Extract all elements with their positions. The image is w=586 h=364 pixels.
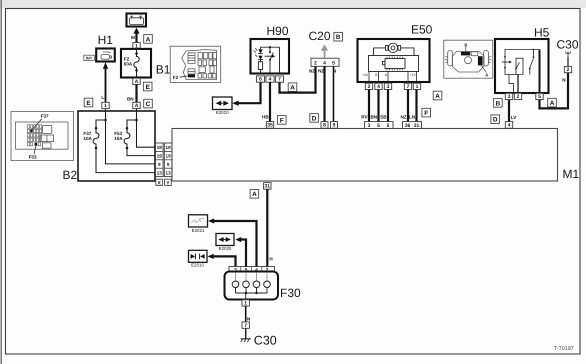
svg-text:F30: F30 bbox=[280, 286, 301, 300]
node junction pinA bbox=[135, 119, 138, 122]
pin 6 bbox=[256, 76, 264, 83]
pin 7 bbox=[275, 76, 283, 83]
svg-text:19: 19 bbox=[157, 154, 163, 159]
connector Y pins 18 19 9 13 bbox=[164, 143, 172, 177]
fuse F53 10A bbox=[114, 127, 130, 149]
svg-text:LN: LN bbox=[409, 114, 416, 119]
node D (pin4) bbox=[491, 115, 500, 124]
wire RV E50 pin2 to M1 bbox=[361, 90, 369, 122]
svg-text:-: - bbox=[406, 73, 407, 77]
svg-text:F53: F53 bbox=[29, 155, 37, 160]
pin 2 (E50) bbox=[365, 83, 372, 90]
svg-text:4: 4 bbox=[323, 60, 326, 66]
svg-text:M: M bbox=[131, 35, 135, 40]
wire M battery to B1 pin 1 bbox=[131, 28, 139, 43]
svg-text:19: 19 bbox=[166, 154, 172, 159]
splice E2020 bbox=[213, 97, 233, 115]
svg-text:A: A bbox=[290, 85, 295, 92]
pin 3 (E50) bbox=[384, 83, 391, 90]
svg-text:7: 7 bbox=[278, 77, 281, 83]
relay H90 bbox=[251, 39, 290, 74]
svg-text:H90: H90 bbox=[267, 24, 289, 38]
svg-text:H5: H5 bbox=[534, 25, 550, 39]
wire SB E50 pin3 to M1 bbox=[380, 90, 388, 122]
E50 internals bbox=[369, 43, 419, 82]
wire N C30 to H5 pin5 bbox=[540, 73, 569, 109]
svg-text:4: 4 bbox=[377, 84, 380, 90]
pin 3 (H5) bbox=[505, 93, 512, 100]
svg-text:C30: C30 bbox=[254, 333, 277, 347]
wire HB H90 pin4 to M1 pin35 bbox=[262, 82, 270, 121]
pin 1 (E50) bbox=[413, 83, 420, 90]
svg-text:E2010: E2010 bbox=[191, 262, 204, 267]
node E (B2 pin 1) bbox=[84, 98, 93, 107]
node A (E50) bbox=[433, 91, 442, 100]
node F (E50 wires) bbox=[422, 108, 431, 117]
svg-text:E2020: E2020 bbox=[219, 246, 232, 251]
fuse F37 10A bbox=[83, 127, 99, 149]
splice E2020 lower bbox=[216, 234, 234, 251]
ground symbol C30 top bbox=[565, 51, 571, 57]
svg-text:4: 4 bbox=[508, 123, 511, 129]
svg-text:5: 5 bbox=[332, 60, 335, 66]
node junction pin1 bbox=[104, 119, 107, 122]
INT box bbox=[84, 55, 95, 60]
svg-text:13: 13 bbox=[157, 170, 163, 175]
svg-text:SB: SB bbox=[380, 114, 387, 119]
svg-text:7: 7 bbox=[407, 84, 410, 90]
wire C20 pin4 to M1 pin8 bbox=[323, 66, 325, 121]
B2 location inset bbox=[11, 112, 74, 161]
svg-text:F2: F2 bbox=[173, 75, 179, 80]
pins 3 5 4 2 (F30) bbox=[229, 267, 275, 274]
wire BN E50 pin4 to M1 bbox=[370, 90, 378, 122]
wire L B2 to H1 bbox=[101, 62, 108, 102]
svg-text:A: A bbox=[252, 191, 257, 198]
fusebox B1 bbox=[121, 49, 151, 78]
pin A (B2 top) bbox=[133, 102, 140, 109]
svg-text:18: 18 bbox=[166, 145, 172, 150]
svg-text:31: 31 bbox=[265, 184, 271, 190]
node X bbox=[156, 179, 163, 186]
pin A (B1 bottom) bbox=[133, 78, 140, 85]
svg-text:7: 7 bbox=[244, 323, 247, 329]
fuse F2 bbox=[134, 49, 139, 78]
node B (C20) bbox=[334, 32, 343, 41]
svg-text:5: 5 bbox=[387, 123, 390, 129]
svg-text:4: 4 bbox=[269, 77, 272, 83]
svg-text:2: 2 bbox=[314, 60, 317, 66]
pin 7 (E50) bbox=[404, 83, 411, 90]
svg-text:C30: C30 bbox=[557, 38, 579, 52]
svg-text:B2: B2 bbox=[63, 168, 78, 182]
svg-text:9: 9 bbox=[158, 162, 161, 167]
node A (battery wire) bbox=[144, 35, 153, 44]
svg-text:35: 35 bbox=[267, 123, 273, 129]
ground C30 bbox=[241, 328, 251, 342]
wire pinA to row 18 bbox=[137, 109, 156, 148]
wire LN E50 pin1 to M1 bbox=[409, 90, 417, 122]
svg-text:A: A bbox=[135, 79, 139, 85]
svg-text:LV: LV bbox=[511, 115, 517, 120]
svg-text:NZ: NZ bbox=[400, 114, 406, 119]
control unit M1 bbox=[172, 129, 558, 182]
node B (H5) bbox=[494, 99, 503, 108]
pin 1 (F30 bottom) bbox=[242, 300, 249, 307]
node F (pin35) bbox=[277, 116, 286, 125]
svg-text:F37: F37 bbox=[41, 114, 49, 119]
wire N F30 to ground bbox=[246, 306, 251, 322]
svg-text:A: A bbox=[146, 36, 151, 43]
wire branch to F53 bbox=[127, 120, 137, 128]
node E (B1 bottom) bbox=[143, 82, 152, 91]
svg-text:A: A bbox=[485, 73, 488, 78]
wire BN B1 to B2 bbox=[127, 85, 137, 103]
E50 internal pin labels bbox=[362, 73, 415, 77]
connector C20 pins 2 4 5 bbox=[311, 58, 339, 66]
H5 location inset bbox=[444, 40, 493, 78]
pin 1 (B1 top) bbox=[133, 43, 140, 50]
H5 internals bbox=[502, 49, 540, 93]
svg-text:E2020: E2020 bbox=[216, 110, 229, 115]
wire LV H5 pin3 to M1 pin4 bbox=[509, 100, 517, 122]
svg-text:HB: HB bbox=[262, 114, 269, 119]
svg-text:9: 9 bbox=[333, 123, 336, 129]
svg-text:E: E bbox=[146, 84, 151, 91]
svg-text:+15: +15 bbox=[410, 73, 416, 77]
pin 4 (E50) bbox=[375, 83, 382, 90]
fusebox B2 bbox=[78, 111, 155, 181]
svg-text:INT: INT bbox=[86, 55, 93, 60]
svg-text:E: E bbox=[86, 100, 91, 107]
svg-text:B: B bbox=[496, 100, 501, 107]
svg-text:C: C bbox=[146, 101, 151, 108]
pin 2 (H5) bbox=[514, 93, 521, 100]
svg-text:C20: C20 bbox=[309, 29, 331, 43]
wire F53 to row 19 bbox=[127, 148, 156, 156]
svg-text:8: 8 bbox=[323, 123, 326, 129]
svg-text:6: 6 bbox=[259, 77, 262, 83]
svg-text:E2021: E2021 bbox=[192, 228, 205, 233]
svg-text:B: B bbox=[336, 34, 341, 41]
pin 9 (M1) bbox=[331, 122, 338, 129]
glow plugs F30 bbox=[225, 272, 279, 300]
svg-text:2: 2 bbox=[517, 94, 520, 100]
svg-text:5: 5 bbox=[377, 123, 380, 129]
svg-text:BN: BN bbox=[370, 114, 377, 119]
svg-text:18: 18 bbox=[157, 145, 163, 150]
wire F30 pin3 to E2010 bbox=[208, 254, 236, 267]
svg-text:2: 2 bbox=[567, 67, 570, 73]
svg-text:D: D bbox=[312, 115, 317, 122]
svg-text:2: 2 bbox=[368, 84, 371, 90]
B1 location inset bbox=[170, 46, 221, 82]
svg-text:A: A bbox=[135, 103, 139, 109]
node C bbox=[144, 99, 153, 108]
svg-text:1: 1 bbox=[104, 103, 107, 109]
svg-text:RV: RV bbox=[361, 114, 368, 119]
svg-text:D: D bbox=[493, 117, 498, 124]
pin 35 (M1) bbox=[266, 122, 273, 129]
svg-text:3: 3 bbox=[508, 94, 511, 100]
svg-text:H1: H1 bbox=[98, 33, 114, 47]
pins 3 5 5 (M1) bbox=[365, 122, 394, 129]
wire symbol to pin 2 bbox=[567, 57, 569, 66]
svg-text:1: 1 bbox=[416, 84, 419, 90]
svg-text:9: 9 bbox=[167, 162, 170, 167]
wire F30 pin5 to E2020 bbox=[235, 237, 246, 267]
pin 4 (M1) bbox=[505, 122, 512, 129]
node Y bbox=[165, 179, 172, 186]
pins 36 31 (M1) bbox=[403, 122, 422, 129]
svg-text:B: B bbox=[464, 42, 467, 47]
svg-text:60A: 60A bbox=[124, 62, 133, 67]
control unit E50 bbox=[358, 39, 430, 82]
svg-text:E50: E50 bbox=[411, 23, 433, 37]
cigar lighter H1 bbox=[96, 49, 115, 62]
node A (H5) bbox=[548, 98, 557, 107]
svg-text:10A: 10A bbox=[83, 136, 92, 141]
wire H90 pin7 to C20 pin2 bbox=[280, 66, 316, 92]
svg-text:A: A bbox=[435, 93, 440, 100]
node A (H90) bbox=[288, 83, 297, 92]
svg-text:BN: BN bbox=[127, 97, 134, 102]
pin 4 bbox=[266, 76, 274, 83]
wire C20 pin5 to M1 pin9 bbox=[333, 66, 335, 121]
svg-text:F: F bbox=[280, 117, 284, 124]
pin 1 (B2 top) bbox=[102, 102, 109, 109]
C20 arrow bbox=[321, 44, 328, 57]
splice E2010 bbox=[189, 250, 208, 267]
svg-text:B1: B1 bbox=[156, 62, 171, 76]
ignition switch H5 bbox=[495, 39, 549, 93]
svg-text:A: A bbox=[550, 100, 555, 107]
svg-text:13: 13 bbox=[166, 170, 172, 175]
pin 31 (M1 bottom) bbox=[264, 183, 271, 190]
H90 internals bbox=[254, 46, 280, 73]
svg-text:3: 3 bbox=[368, 123, 371, 129]
node D (pins 8 9) bbox=[310, 114, 319, 123]
wire NZ E50 pin7 to M1 bbox=[400, 90, 408, 122]
svg-text:T-70197: T-70197 bbox=[554, 346, 574, 352]
wire branch to F37 bbox=[96, 120, 106, 128]
connector X pins 18 19 9 13 bbox=[156, 143, 164, 177]
svg-text:3: 3 bbox=[387, 84, 390, 90]
svg-text:+30: +30 bbox=[362, 73, 368, 77]
svg-text:31: 31 bbox=[414, 123, 420, 129]
wire H M1 pin31 to F30 pin2 bbox=[267, 189, 273, 266]
svg-text:5: 5 bbox=[538, 94, 541, 100]
battery A bbox=[127, 14, 147, 27]
wire pin1 to row 9 bbox=[106, 109, 156, 164]
node A (pin31) bbox=[250, 190, 259, 199]
svg-text:10A: 10A bbox=[114, 136, 123, 141]
splice E2021 bbox=[189, 215, 208, 233]
svg-text:L: L bbox=[101, 95, 104, 100]
pin 2 (C30) bbox=[564, 66, 571, 73]
svg-text:NZ: NZ bbox=[309, 68, 315, 73]
wire inside H5 to pin 5 bbox=[539, 50, 541, 94]
pin 7 (C30 bottom) bbox=[242, 322, 249, 329]
wire F30 pin4 to E2021 bbox=[208, 218, 256, 266]
wire F37 to row 13 bbox=[96, 148, 156, 173]
pin 5 (H5) bbox=[536, 93, 543, 100]
svg-text:36: 36 bbox=[405, 123, 411, 129]
svg-text:F: F bbox=[424, 110, 428, 117]
svg-text:M1: M1 bbox=[563, 167, 580, 181]
pin 8 (M1) bbox=[321, 122, 328, 129]
wire H90 pin6 to splice E2020 bbox=[232, 82, 260, 106]
svg-text:1: 1 bbox=[244, 301, 247, 307]
